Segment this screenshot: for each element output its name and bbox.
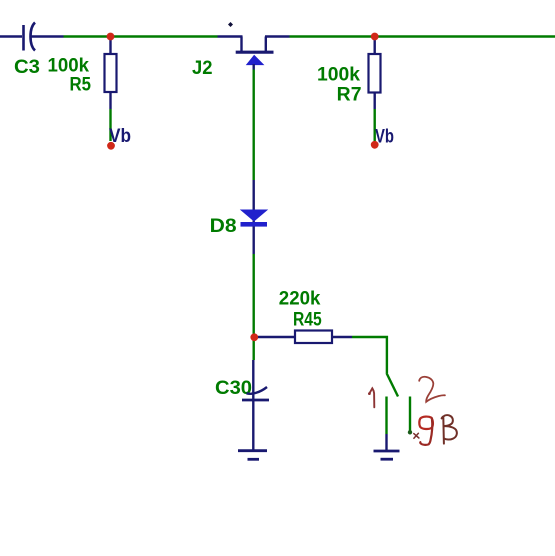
svg-text:D8: D8 (210, 216, 237, 237)
wire top-right green segment (290, 35, 555, 37)
svg-text:C3: C3 (14, 57, 40, 78)
diode D8 (240, 210, 268, 227)
svg-text:100k: 100k (317, 65, 360, 86)
node Vb right dot (371, 141, 379, 149)
wire node A green segment (64, 35, 218, 37)
switch pin 2 (409, 397, 411, 432)
resistor R5 (105, 54, 117, 92)
wire C3 to node A (navy part) (30, 35, 64, 37)
annotation "x" (red handwriting) (414, 433, 419, 438)
annotation "9" (red handwriting) (419, 417, 433, 429)
switch blade (387, 373, 399, 397)
resistor R45 (295, 331, 332, 344)
annotation "B" (red handwriting) (442, 415, 457, 443)
wire to J2 left (navy) (218, 35, 243, 37)
wire R45 to switch (green) (352, 337, 387, 373)
svg-text:100k: 100k (48, 55, 90, 76)
wire J2 right (navy) (265, 35, 290, 37)
annotation "1" (red handwriting) (369, 388, 374, 407)
node A junction dot (107, 33, 115, 41)
diamond dot above J2 (228, 22, 233, 27)
wire R7 to Vb (green) (374, 109, 376, 141)
wire pin1 to ground (navy) (385, 434, 387, 450)
resistor R7 (369, 54, 381, 93)
node Vb left dot (107, 142, 115, 150)
ground left (238, 451, 267, 460)
wire node A to R5 (109, 37, 111, 56)
wire R5 to Vb (navy) (109, 92, 111, 109)
wire into D8 (navy) (252, 180, 254, 222)
wire R45 right (navy) (332, 336, 352, 338)
svg-text:R5: R5 (70, 74, 92, 95)
wire J2 gate stub (navy) (252, 64, 254, 70)
wire D8 to node C (navy) (252, 227, 254, 255)
capacitor C3 (24, 23, 36, 51)
svg-text:220k: 220k (279, 289, 321, 310)
wire node B to R7 (374, 37, 376, 56)
wire into C30 (navy) (252, 360, 254, 450)
wire J2 gate to D8 (green) (252, 70, 254, 181)
ground right (374, 451, 400, 459)
svg-text:R7: R7 (337, 84, 362, 105)
annotation "2" (red handwriting) (419, 377, 445, 402)
wire R7 to Vb (navy) (374, 93, 376, 110)
switch pin 1 (385, 397, 387, 435)
wire node C to R45 (navy) (258, 336, 296, 338)
transistor J2 (236, 37, 274, 65)
capacitor C30 (242, 387, 269, 400)
wire D8 to C30 (green) (252, 254, 254, 360)
wire top-left navy segment (0, 35, 22, 37)
svg-text:R45: R45 (293, 309, 322, 330)
svg-text:J2: J2 (192, 58, 213, 79)
svg-text:C30: C30 (215, 378, 252, 399)
node C junction dot (250, 333, 258, 341)
node B junction dot (371, 33, 379, 41)
wire R5 to Vb (green) (109, 109, 111, 141)
